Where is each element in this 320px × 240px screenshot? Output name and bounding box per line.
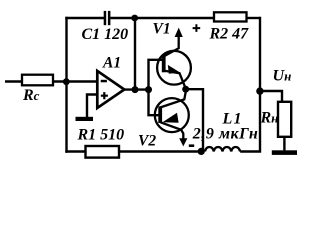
resistor Rc <box>22 75 53 86</box>
wire R2 to top-right corner <box>247 17 261 19</box>
node emitter junction <box>182 86 189 93</box>
wire op-amp plus input stub <box>87 95 98 118</box>
node input junction <box>63 78 70 85</box>
wire op-amp output <box>123 88 149 90</box>
wire base vertical to V1 <box>149 60 163 90</box>
wire right vertical rail <box>240 17 260 152</box>
resistor R1 <box>86 146 120 158</box>
transistor V2 <box>155 89 194 147</box>
node Un output junction <box>256 87 263 94</box>
node output dot2 <box>145 86 152 93</box>
ground Rn <box>272 150 297 155</box>
svg-text:C1 120: C1 120 <box>82 26 129 43</box>
wire top-left from left rail to C1 <box>65 17 104 19</box>
resistor Rn <box>278 102 291 137</box>
wire top rail to R2 <box>135 17 214 19</box>
node output dot1 <box>132 86 139 93</box>
node bottom rail junction <box>198 148 205 155</box>
svg-text:2,9 мкГн: 2,9 мкГн <box>192 126 259 143</box>
wire output node horizontal to Rn <box>260 91 282 103</box>
wire feedback vertical C1-output <box>134 18 136 90</box>
transistor V1 <box>157 24 200 88</box>
ground op-amp <box>76 117 94 121</box>
svg-text:A1: A1 <box>102 54 121 71</box>
svg-text:V2: V2 <box>138 132 156 149</box>
wire bottom rail mid <box>119 150 201 152</box>
wire C1 right to top node <box>110 17 135 19</box>
resistor R2 <box>214 12 247 21</box>
wire Rc to op-amp minus input <box>53 80 98 82</box>
node top C1 junction <box>131 15 138 22</box>
capacitor C1 <box>104 11 111 25</box>
wire left rail <box>65 17 67 153</box>
wire base vertical to V2 <box>149 90 159 116</box>
wire Rn bottom stub <box>283 137 285 151</box>
svg-text:Rн: Rн <box>260 109 279 126</box>
svg-text:R1 510: R1 510 <box>77 127 125 144</box>
inductor L1 <box>205 147 240 151</box>
svg-text:R2 47: R2 47 <box>209 26 250 43</box>
svg-text:Rc: Rc <box>22 87 40 104</box>
svg-text:V1: V1 <box>153 20 171 37</box>
svg-text:Uн: Uн <box>273 67 292 84</box>
wire emitter node to down rail <box>186 89 203 151</box>
op-amp A1 <box>97 71 124 108</box>
wire bottom rail left <box>65 150 85 152</box>
wire input left <box>5 80 22 82</box>
